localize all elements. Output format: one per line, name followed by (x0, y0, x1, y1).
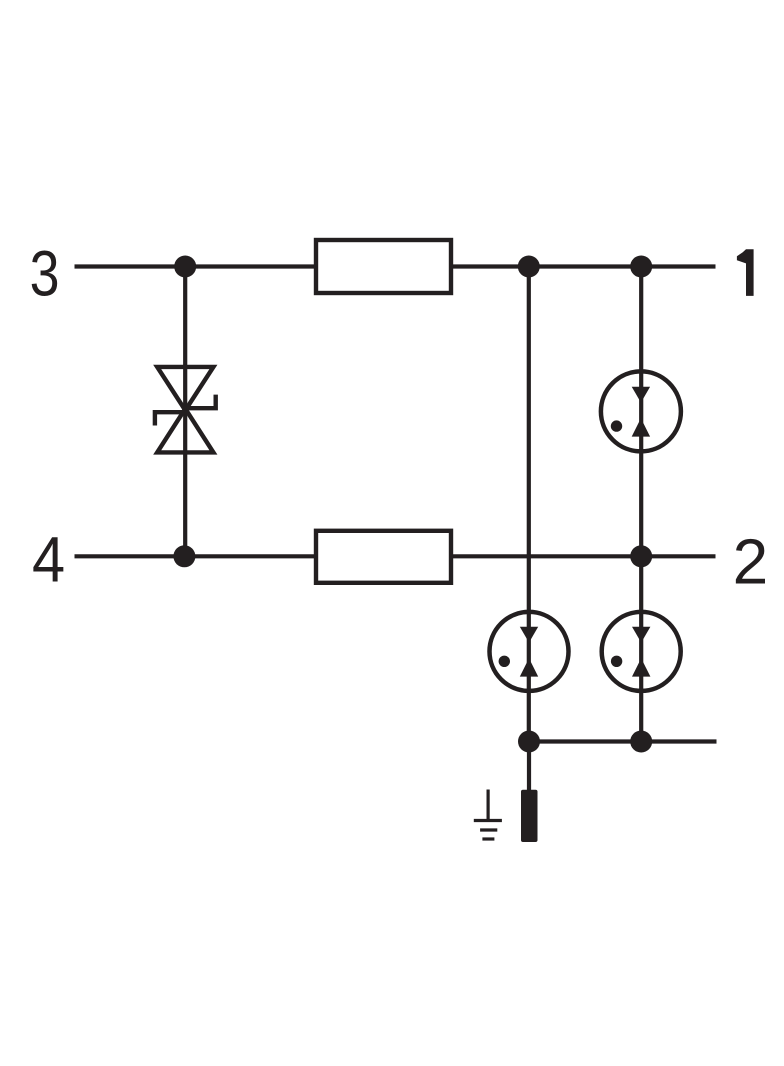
ground symbol: long bar (474, 819, 502, 822)
node: junction row1 middle branch (518, 256, 540, 278)
node: junction 3 / suppressor (174, 256, 196, 278)
wire: drop from PE bus to PE terminal (527, 742, 531, 792)
PE terminal block (filled) (521, 790, 538, 842)
gas discharge tube G2 (bottom middle): envelope (490, 612, 569, 691)
terminal label 1 (737, 249, 754, 296)
suppressor diode: left Z-bar (155, 412, 187, 425)
gas discharge tube G1: upper electrode triangle (632, 387, 650, 403)
gas discharge tube G3: lower electrode triangle (632, 658, 650, 676)
resistor R2 (bottom) (316, 531, 451, 583)
wire row 2: terminal 4 to terminal 2 (75, 554, 716, 558)
gas discharge tube G1 (top right): envelope (601, 371, 681, 451)
ground symbol: middle bar (480, 828, 497, 831)
gas discharge tube G3 (bottom right): envelope (602, 612, 681, 691)
svg-text:3: 3 (30, 237, 60, 310)
gas discharge tube G2: lower electrode triangle (520, 658, 538, 676)
gas discharge tube G1: lower electrode triangle (632, 418, 650, 436)
suppressor diode (bidirectional TVS): upper triangle (157, 367, 213, 410)
wire row 3: bottom PE bus (529, 739, 717, 743)
svg-text:4: 4 (32, 525, 65, 596)
gas discharge tube G2: upper electrode triangle (520, 627, 538, 643)
node: junction row1 right branch (630, 256, 652, 278)
node: junction PE bus right (630, 731, 652, 753)
suppressor diode: right Z-bar (184, 395, 216, 409)
resistor R1 (top) (316, 240, 451, 293)
node: junction 4 / suppressor (173, 545, 195, 567)
gas discharge tube G3: gas-filled dot (611, 656, 622, 667)
gas discharge tube G3: upper electrode triangle (632, 627, 650, 643)
ground symbol: short bar (482, 837, 494, 840)
wire: middle vertical branch (527, 267, 531, 742)
wire: right vertical branch (639, 267, 643, 742)
suppressor diode: lower triangle (157, 409, 213, 453)
wire row 1: terminal 3 to terminal 1 (75, 264, 716, 268)
node: junction row2 right branch (630, 545, 652, 567)
wire: left vertical branch through suppressor diode (183, 267, 187, 557)
gas discharge tube G2: gas-filled dot (499, 656, 510, 667)
gas discharge tube G1: gas-filled dot (611, 420, 622, 431)
ground symbol: stem (487, 790, 490, 821)
svg-text:2: 2 (733, 526, 769, 598)
node: junction PE bus left (518, 731, 540, 753)
